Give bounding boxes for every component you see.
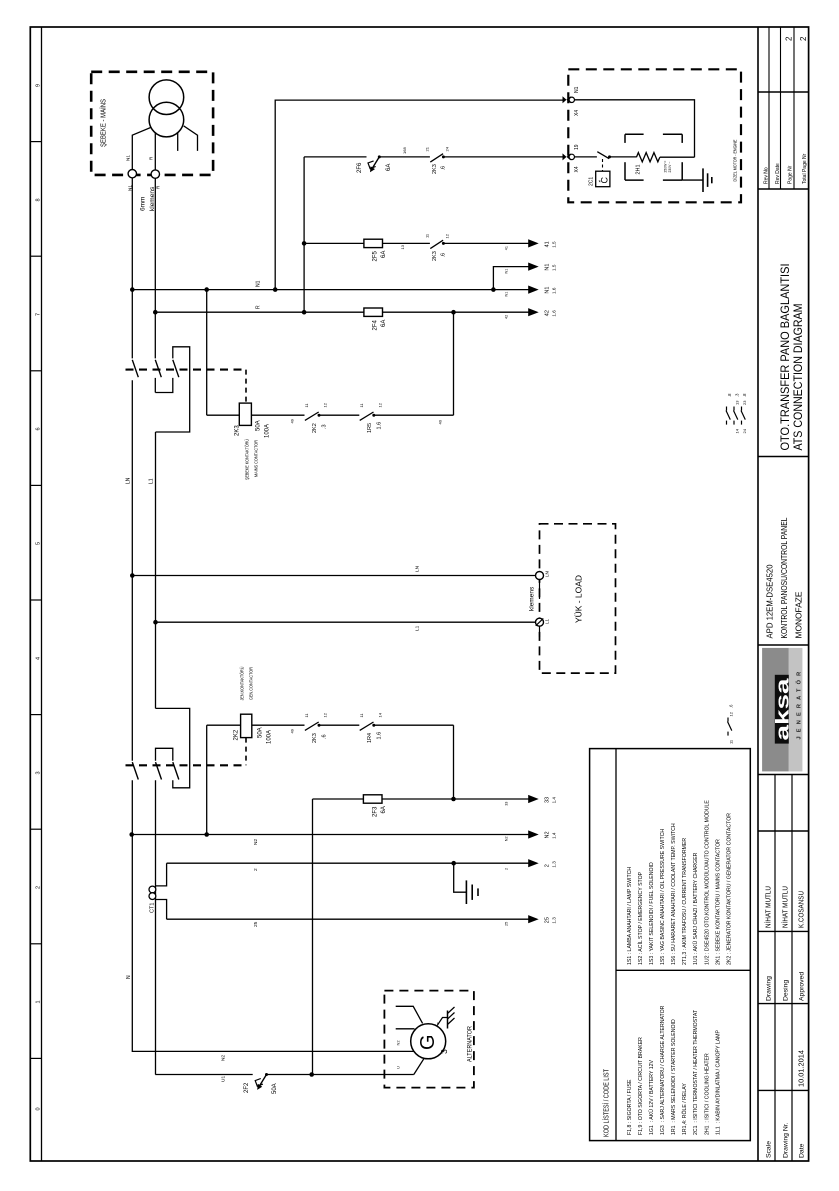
engine dashed box DIZEL MOTOR-ENGINE (568, 69, 741, 202)
junction LN (130, 573, 135, 578)
svg-text:2H1 : ISITICI / COOLING HEATE: 2H1 : ISITICI / COOLING HEATER (704, 1053, 710, 1135)
wire gen phase corner (154, 1074, 156, 1076)
wire gen phase to CT (155, 780, 157, 1074)
junction U1 33 riser (309, 1072, 314, 1077)
aksa logo light band (789, 648, 803, 772)
code list header divider (615, 749, 617, 1141)
svg-text:168: 168 (402, 147, 407, 154)
svg-text:23: 23 (742, 400, 747, 405)
svg-text:N1: N1 (127, 185, 132, 191)
svg-text:12: 12 (377, 402, 382, 407)
svg-text:8: 8 (35, 198, 41, 201)
svg-text:G: G (417, 1034, 439, 1050)
svg-text:1U1 : AKÜ SARJ CİHAZI / BATTER: 1U1 : AKÜ SARJ CİHAZI / BATTERY CHARGER (692, 852, 699, 965)
svg-text:Drawing Nr.: Drawing Nr. (783, 1122, 790, 1158)
svg-text:1L1 : KABIN AYDINLATMA / CANO: 1L1 : KABIN AYDINLATMA / CANOPY LAMP (715, 1030, 721, 1135)
svg-text:ŞEBEKE - MAİNS: ŞEBEKE - MAİNS (99, 99, 108, 147)
wire 2K2 rung to 33 line (453, 725, 455, 799)
sheet arrow N2 1.4 (528, 830, 539, 838)
svg-text:1S5 : YAG BASINC ANAHTARI / OI: 1S5 : YAG BASINC ANAHTARI / OIL PRESSURE… (660, 829, 666, 965)
svg-text:12: 12 (323, 712, 328, 717)
coil 2K3 mains contactor (239, 403, 251, 425)
svg-text:6A: 6A (381, 251, 387, 258)
earth symbol 2 line (465, 880, 467, 904)
contact position reference 2K3 (726, 407, 728, 411)
svg-text:0: 0 (35, 1107, 41, 1110)
wire heater to N1 corner (660, 156, 695, 158)
thermostat box 2C1 (596, 171, 610, 187)
wire to heater (611, 156, 637, 158)
fuse 2F4 6A (364, 308, 383, 316)
wire U1 line (155, 1074, 252, 1076)
transfer switch 2K2 pole3 blade (173, 762, 179, 779)
svg-text:3: 3 (35, 771, 41, 774)
svg-text:.6: .6 (322, 734, 328, 739)
title block section dividers (758, 91, 809, 93)
svg-text:CT1: CT1 (150, 903, 156, 913)
svg-text:14: 14 (377, 712, 382, 717)
svg-text:5: 5 (35, 542, 41, 545)
junction N1 jog (491, 287, 496, 292)
svg-text:F1,8 : SIGORTA / FUSE: F1,8 : SIGORTA / FUSE (627, 1079, 633, 1135)
svg-text:2K2: 2K2 (312, 423, 318, 433)
junction N1 engine branch (273, 287, 278, 292)
svg-text:2F2: 2F2 (244, 1082, 250, 1093)
wire 25 line (167, 918, 530, 920)
svg-text:1S2 : ACİL STOP / EMERGENCY ST: 1S2 : ACİL STOP / EMERGENCY STOP (637, 871, 644, 965)
sheet arrow 41 1.5 (528, 239, 539, 247)
wire 2K1 pole2 lower stub (154, 378, 156, 393)
svg-text:1R1 : MARS SELENOIDI / STARTE: 1R1 : MARS SELENOIDI / STARTER SOLENOID (671, 1019, 677, 1135)
code list table box (590, 749, 751, 1141)
svg-text:1.6: 1.6 (377, 732, 383, 740)
heater enclosure bracket (625, 133, 644, 135)
interlock dash drop to 2K3 coil (245, 370, 247, 404)
svg-text:ALTERNATOR: ALTERNATOR (468, 1025, 474, 1062)
terminal LN load (536, 572, 544, 580)
svg-text:40: 40 (438, 419, 443, 424)
svg-text:2K3: 2K3 (312, 733, 318, 743)
sheet arrow N1 1.6 (528, 286, 539, 294)
svg-text:.6: .6 (440, 166, 446, 171)
wire 2K1 pole3 upper jog (156, 347, 190, 432)
svg-text:N2: N2 (396, 1040, 401, 1046)
junction N1 bus feeder (130, 287, 135, 292)
terminal L1 load (536, 618, 544, 626)
svg-text:N1: N1 (545, 287, 551, 294)
aksa logo gray field (762, 648, 789, 772)
svg-text:12: 12 (445, 233, 450, 238)
svg-text:1.3: 1.3 (552, 917, 557, 924)
svg-text:2F5: 2F5 (373, 250, 379, 261)
fuse 2F3 6A (363, 795, 382, 803)
svg-text:50A: 50A (256, 420, 262, 431)
svg-text:X4: X4 (574, 110, 580, 116)
engine earth symbol (702, 168, 704, 192)
svg-text:2: 2 (799, 36, 808, 41)
svg-text:1R4: 1R4 (367, 733, 373, 743)
svg-text:2C1 : ISITICI TERMOSTAT / HEA: 2C1 : ISITICI TERMOSTAT / HEATER THERMOS… (693, 1009, 699, 1135)
code list column divider (616, 969, 750, 971)
svg-text:25: 25 (505, 922, 509, 926)
wire engine 19 internal (575, 156, 597, 158)
wire 2K2 coil to neutral N2 (206, 725, 208, 836)
svg-text:NİHAT MUTLU: NİHAT MUTLU (781, 886, 790, 928)
wire U1 diagonal to alternator (414, 1059, 424, 1075)
alternator dashed box (384, 991, 474, 1088)
transfer switch 2K2 pole2 blade (156, 762, 162, 779)
svg-text:NİHAT MUTLU: NİHAT MUTLU (764, 886, 773, 928)
wire N1 bus (131, 178, 133, 359)
wire 2K3 rung (207, 414, 240, 416)
svg-text:1.6: 1.6 (552, 310, 557, 317)
transformer T circle 1 (149, 80, 184, 115)
svg-text:42: 42 (505, 315, 509, 319)
sheet arrow N1 1.5 (528, 263, 539, 271)
transformer stub 1 (177, 133, 179, 151)
svg-text:100A: 100A (265, 424, 271, 438)
svg-text:10.01.2014: 10.01.2014 (799, 1050, 806, 1087)
svg-text:3: 3 (439, 1049, 449, 1054)
svg-text:Approved: Approved (799, 972, 806, 1001)
svg-text:N2: N2 (505, 836, 509, 841)
svg-text:1S6 : SU HARARET ANAHTARI / CO: 1S6 : SU HARARET ANAHTARI / COOLANT TEMP… (671, 823, 677, 965)
alternator circle G (411, 1024, 446, 1059)
svg-text:24: 24 (742, 428, 747, 433)
svg-text:N1: N1 (574, 86, 580, 93)
sheet arrow 42 1.6 (528, 308, 539, 316)
wire 2F5 line (304, 242, 430, 244)
svg-text:41: 41 (545, 241, 551, 247)
wire transformer to terminal N1 (132, 127, 151, 171)
svg-text:N1: N1 (125, 155, 130, 161)
coil 2K2 generator contactor (241, 714, 252, 737)
svg-text:APD 12EM-DSE4520: APD 12EM-DSE4520 (765, 564, 775, 638)
svg-text:U: U (396, 1066, 401, 1069)
transfer switch 2K2 pole1 blade (132, 762, 138, 779)
wire N1 jog to arrow N1 1.5 (493, 267, 529, 290)
wire R bus (154, 178, 156, 358)
svg-text:1U2 : DSE4520 OTO.KONTROL MODÜ: 1U2 : DSE4520 OTO.KONTROL MODÜLÜ/AUTO CO… (703, 800, 710, 965)
svg-text:Drawing: Drawing (766, 976, 773, 1001)
contact 2K3 aux on 2K2 rung (305, 722, 319, 730)
svg-text:R: R (256, 305, 262, 309)
svg-text:klemens: klemens (529, 586, 536, 611)
junction N2 coil link (204, 832, 209, 837)
svg-text:JENERATÖR: JENERATÖR (796, 668, 803, 740)
engine earth stub (682, 179, 703, 181)
wire 2K2 rung mid (252, 724, 305, 726)
svg-text:33: 33 (545, 797, 551, 803)
junction N1 rung link (204, 287, 209, 292)
svg-text:aksa: aksa (771, 677, 792, 740)
interlock dash rise to 2K2 coil (245, 738, 247, 766)
svg-text:6mm: 6mm (140, 197, 147, 211)
wire 2K2 pole3 top jog (156, 748, 173, 760)
sheet arrow 2 1.3 (528, 859, 539, 867)
svg-text:42: 42 (545, 310, 551, 316)
contact position reference 2K2 (727, 718, 729, 722)
junction R bus feeder (153, 310, 158, 315)
breaker 2F2 50A (265, 1073, 268, 1076)
transformer T circle 2 (149, 102, 184, 137)
svg-text:F1,9 : OTO SIGORTA / CIRCUIT B: F1,9 : OTO SIGORTA / CIRCUIT BRAKER (638, 1037, 644, 1135)
CT1 secondary loop bottom (156, 900, 167, 920)
svg-text:K.COSANSU: K.COSANSU (797, 891, 806, 928)
contact 2K3 on engine line (430, 154, 443, 162)
sheet arrow 33 1.4 (528, 795, 539, 803)
svg-text:2: 2 (785, 36, 794, 41)
svg-text:1.4: 1.4 (552, 797, 557, 804)
wire 2K1 pole2-pole3 jog (155, 378, 173, 393)
svg-text:2C1: 2C1 (589, 177, 595, 186)
revision table rows (768, 27, 770, 189)
wire 2K3 rung mid (251, 414, 304, 416)
svg-text:JEN.KONTAKTÖRÜ: JEN.KONTAKTÖRÜ (239, 667, 245, 701)
svg-text:1.5: 1.5 (552, 241, 557, 248)
svg-text:LN: LN (126, 477, 132, 484)
svg-text:50A: 50A (258, 727, 264, 738)
svg-text:N2: N2 (253, 839, 259, 845)
svg-text:Rev Date: Rev Date (775, 163, 781, 184)
alternator stub 2 (396, 1028, 415, 1030)
junction R branch (302, 310, 307, 315)
svg-text:N2: N2 (545, 831, 551, 838)
svg-text:LN: LN (545, 571, 550, 577)
svg-text:7: 7 (35, 313, 41, 316)
earth connection on 2 line (454, 863, 467, 892)
wire R to L1 (155, 432, 157, 622)
svg-text:N2: N2 (221, 1055, 227, 1061)
junction L1 (153, 620, 158, 625)
title block row lines (774, 775, 776, 1162)
svg-text:49: 49 (290, 418, 295, 423)
junction earth on 2 line (451, 861, 456, 866)
svg-text:N1: N1 (505, 292, 509, 297)
transfer switch 2K1 pole1 blade (132, 360, 138, 377)
svg-text:MONOFAZE: MONOFAZE (794, 591, 804, 638)
svg-text:1: 1 (35, 1000, 41, 1003)
svg-text:4: 4 (35, 657, 41, 660)
svg-text:100A: 100A (267, 730, 273, 744)
svg-text:2: 2 (505, 868, 509, 870)
breaker 2F6 6A (378, 155, 381, 158)
svg-text:2: 2 (253, 868, 259, 871)
svg-text:2: 2 (35, 886, 41, 889)
junction 2F5 branch (302, 241, 307, 246)
terminal X4 19 (563, 153, 567, 160)
zone reference strip line (41, 27, 43, 1161)
svg-text:L1: L1 (149, 478, 155, 484)
terminal N1 mains (128, 170, 136, 178)
svg-text:Page Nr: Page Nr (788, 165, 794, 184)
interlock dashed line 2K1 (126, 369, 247, 371)
svg-text:N1: N1 (545, 264, 551, 271)
svg-text:MAINS CONTACTOR: MAINS CONTACTOR (254, 439, 259, 477)
svg-text:Desing: Desing (783, 980, 790, 1001)
svg-text:C: C (600, 177, 610, 184)
svg-text:DİZEL MOTOR - ENGINE: DİZEL MOTOR - ENGINE (732, 140, 738, 182)
svg-text:N: N (126, 975, 132, 979)
svg-text:2K2 : JENERATOR KONTAKTORU / G: 2K2 : JENERATOR KONTAKTORU / GENERATOR C… (726, 813, 732, 965)
fuse 2F5 6A (364, 239, 383, 247)
wire N1 feeder to 2K3 rung (206, 290, 208, 416)
svg-text:19: 19 (574, 144, 580, 150)
wire 2K3 rung to R feeder (453, 312, 455, 415)
svg-text:2K3: 2K3 (432, 164, 438, 174)
wire N1 feeder line (132, 289, 529, 291)
thermostat contact 2C1 (597, 152, 609, 159)
svg-text:1G3 : SARJ ALTERNATORU / CHAR: 1G3 : SARJ ALTERNATORU / CHARGE ALTERNAT… (660, 1005, 666, 1135)
zone strip dividers (30, 141, 41, 143)
svg-text:KOD LİSTESİ / CODE LIST: KOD LİSTESİ / CODE LIST (602, 1068, 611, 1137)
junction N2 start (129, 832, 134, 837)
svg-text:1.5: 1.5 (552, 264, 557, 271)
wire transformer to terminal R (154, 133, 156, 172)
wire R feeder line (155, 311, 529, 313)
svg-text:14: 14 (735, 428, 740, 433)
svg-text:250W =: 250W = (664, 161, 668, 173)
svg-text:1S3 : YAKIT SELENOIDI / FUEL S: 1S3 : YAKIT SELENOIDI / FUEL SOLENOID (649, 862, 655, 965)
svg-text:2F4: 2F4 (373, 319, 379, 330)
dashed link to 2C1 (602, 159, 604, 171)
svg-text:21: 21 (425, 146, 430, 151)
svg-text:2K3: 2K3 (432, 251, 438, 261)
contact 2K2 aux on 2K3 rung (305, 412, 319, 420)
title block outer line (757, 27, 759, 1161)
wire 2K2 rung (207, 724, 241, 726)
svg-text:2K3: 2K3 (235, 425, 241, 436)
svg-text:25: 25 (545, 917, 551, 923)
wire L1 to load (156, 621, 536, 623)
svg-text:Scale: Scale (766, 1141, 773, 1158)
svg-text:2: 2 (545, 864, 551, 867)
svg-text:2F3: 2F3 (373, 806, 379, 817)
svg-text:33: 33 (505, 802, 509, 806)
wire U1 line right (267, 1074, 414, 1076)
svg-text:ATS CONNECTION DIAGRAM: ATS CONNECTION DIAGRAM (791, 304, 805, 451)
transfer switch 2K1 pole2 blade (155, 360, 161, 377)
svg-text:1R1,4: RÖLE / RELAY: 1R1,4: RÖLE / RELAY (681, 1083, 688, 1135)
transfer switch 2K1 pole3 blade (173, 360, 179, 377)
svg-text:N1: N1 (256, 280, 262, 287)
wire 2F6 line to engine (443, 156, 564, 158)
svg-text:LN: LN (415, 565, 421, 572)
svg-text:Total Page Nr: Total Page Nr (802, 153, 808, 184)
heater resistor 2H1 (636, 153, 659, 162)
svg-text:25: 25 (253, 921, 259, 927)
svg-text:L1: L1 (545, 618, 550, 624)
svg-text:X4: X4 (574, 166, 580, 172)
wire 2F6 line right segment (379, 156, 430, 158)
svg-text:YÜK - LOAD: YÜK - LOAD (574, 575, 584, 623)
svg-text:6A: 6A (381, 320, 387, 327)
wire N bus lower segment (131, 380, 133, 761)
alternator chassis earth (438, 1018, 448, 1026)
svg-text:2K1 : SEBEKE KONTAKTORU / MAIN: 2K1 : SEBEKE KONTAKTORU / MAINS CONTACTO… (715, 839, 721, 965)
svg-text:N1: N1 (505, 269, 509, 274)
junction 33 rung link (451, 797, 456, 802)
svg-text:12: 12 (323, 402, 328, 407)
svg-text:1S1 : LAMBA ANAHTARI / LAMP SW: 1S1 : LAMBA ANAHTARI / LAMP SWITCH (627, 867, 633, 965)
wire 2K2 pole bypass jog (156, 708, 190, 787)
svg-text:1.3: 1.3 (552, 861, 557, 868)
svg-text:1.6: 1.6 (552, 287, 557, 294)
svg-text:KONTROL PANOSU/CONTROL PANEL: KONTROL PANOSU/CONTROL PANEL (779, 517, 789, 638)
contact 1R5 on 2K3 rung (360, 412, 374, 420)
contact 2K3 aux on 41 line (430, 240, 443, 248)
svg-text:9: 9 (35, 84, 41, 87)
svg-text:13: 13 (400, 244, 405, 249)
svg-text:24: 24 (445, 146, 450, 151)
terminal R mains (151, 170, 159, 178)
wire N to alternator (132, 780, 414, 1051)
svg-text:2F6: 2F6 (357, 162, 363, 173)
wire 33 riser from U1 (312, 799, 314, 1075)
wire engine N1 internal (575, 100, 695, 157)
svg-text:L1: L1 (415, 625, 421, 631)
wire N2 line (132, 834, 530, 836)
svg-text:1.4: 1.4 (552, 832, 557, 839)
terminal X4 N1 (563, 96, 567, 103)
svg-text:.3: .3 (322, 424, 328, 429)
svg-text:1R5: 1R5 (367, 423, 373, 433)
mains supply dashed box SEBEKE-MAINS (91, 72, 213, 175)
wire R branch riser (303, 157, 305, 312)
wire 33 line (313, 798, 530, 800)
svg-text:Date: Date (799, 1143, 806, 1158)
CT1 secondary loop top (156, 863, 167, 886)
svg-text:50A: 50A (272, 1083, 278, 1094)
contact 1R4 on 2K2 rung (360, 722, 374, 730)
alternator stub 1 (396, 1006, 423, 1023)
svg-text:U1: U1 (221, 1076, 227, 1082)
svg-text:OTO.TRANSFER PANO BAGLANTISI: OTO.TRANSFER PANO BAGLANTISI (778, 264, 792, 451)
svg-text:Rev No: Rev No (764, 167, 770, 184)
svg-text:6A: 6A (386, 164, 392, 171)
svg-text:6: 6 (35, 427, 41, 430)
junction 42-40 link (451, 310, 456, 315)
svg-text:12: 12 (729, 711, 734, 716)
interlock dashed line 2K2 (126, 764, 247, 766)
wire 2F6 line left segment (304, 156, 366, 158)
wire 2 line (167, 862, 530, 864)
svg-text:6A: 6A (381, 806, 387, 813)
svg-text:49: 49 (290, 728, 295, 733)
svg-text:GEN.CONTACTOR: GEN.CONTACTOR (249, 666, 254, 700)
svg-text:2T1,3 : AKIM TRAFOSU / CURRENT: 2T1,3 : AKIM TRAFOSU / CURRENT TRANSFORM… (682, 838, 688, 965)
sheet arrow 25 1.3 (528, 915, 539, 923)
svg-text:1G1 : AKÜ 12V / BATTERY 12V: 1G1 : AKÜ 12V / BATTERY 12V (648, 1059, 655, 1135)
svg-text:ŞEBEKE KONTAKTÖRÜ: ŞEBEKE KONTAKTÖRÜ (244, 439, 250, 480)
wire gen phase from L1 node (155, 622, 157, 708)
load dashed box YUK-LOAD (540, 524, 616, 673)
svg-text:230V ~: 230V ~ (668, 162, 672, 173)
wire LN to load (132, 575, 535, 577)
svg-text:1.6: 1.6 (377, 422, 383, 430)
wire N1 to engine box (275, 100, 564, 290)
svg-text:2H1: 2H1 (636, 164, 642, 174)
aksa logo black box (775, 675, 789, 744)
svg-text:13: 13 (735, 400, 740, 405)
svg-text:.6: .6 (440, 253, 446, 258)
svg-text:41: 41 (505, 246, 509, 250)
current transformer CT1 winding (149, 886, 156, 893)
svg-text:2K2: 2K2 (234, 729, 240, 740)
transformer stub 2 (184, 126, 198, 151)
